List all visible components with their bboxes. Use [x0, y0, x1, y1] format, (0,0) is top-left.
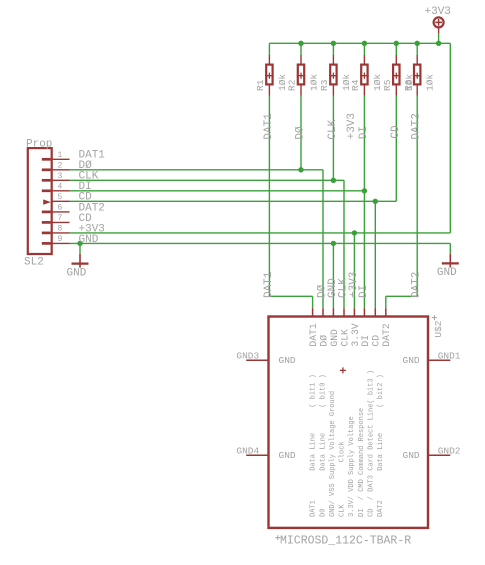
junction bus R2 — [298, 41, 303, 46]
svg-text:DI: DI — [360, 335, 371, 347]
svg-text:R6: R6 — [403, 79, 414, 91]
junction 3.3V pin — [352, 230, 357, 235]
junction bus R6 — [415, 41, 420, 46]
wire D0 row — [70, 169, 302, 171]
svg-text:CLK: CLK — [339, 329, 350, 347]
svg-text:DØ: DØ — [295, 126, 307, 140]
junction bus R4 — [362, 41, 367, 46]
junction DI R4 — [362, 188, 367, 193]
junction GND left — [77, 241, 82, 246]
wire D0 jog down to U$2 — [301, 170, 323, 308]
resistor R2 — [287, 55, 320, 96]
ground symbol left — [67, 254, 89, 280]
wire CD row — [70, 200, 397, 202]
svg-text:U$2: U$2 — [433, 320, 444, 337]
svg-text:1Øk: 1Øk — [309, 74, 320, 91]
microSD socket U$2 — [246, 308, 450, 528]
junction bus +3V3 — [436, 41, 441, 46]
svg-text:3.3V: 3.3V — [350, 323, 361, 346]
svg-text:CLK Clock: CLK Clock — [339, 441, 347, 517]
wire +3V3 row to pin 8 — [70, 232, 451, 234]
wire GND row from pin 9 — [70, 242, 451, 244]
svg-text:CD: CD — [371, 335, 382, 347]
resistor R3 — [319, 55, 352, 96]
svg-text:R2: R2 — [287, 79, 298, 91]
svg-text:SL2: SL2 — [24, 257, 44, 269]
svg-text:5: 5 — [57, 193, 62, 202]
wire +3V3 right rail — [449, 43, 451, 233]
wire DAT1 from R1 to U$2 — [269, 96, 312, 309]
svg-text:DAT2: DAT2 — [381, 323, 392, 346]
svg-text:DI: DI — [358, 285, 370, 298]
svg-text:DAT2: DAT2 — [411, 113, 423, 139]
svg-text:GND: GND — [279, 450, 296, 461]
wire +3V3 bus — [269, 42, 450, 44]
wire CLK from R3 — [332, 96, 334, 181]
svg-text:1Øk: 1Øk — [425, 74, 436, 91]
svg-text:DAT2: DAT2 — [411, 272, 423, 298]
origin cross U$2 — [432, 315, 437, 320]
svg-text:DØ: DØ — [318, 335, 329, 347]
connector SL2 — [24, 139, 70, 269]
wire CD drop to U$2 — [374, 201, 376, 308]
junction D0 R2 — [298, 167, 303, 172]
svg-text:R4: R4 — [350, 79, 361, 91]
svg-text:1: 1 — [57, 151, 62, 160]
svg-text:GND3: GND3 — [236, 351, 259, 362]
svg-text:GND: GND — [403, 355, 420, 366]
svg-text:2: 2 — [57, 161, 62, 170]
svg-text:DI: DI — [358, 126, 370, 139]
svg-text:MICROSD_112C-TBAR-R: MICROSD_112C-TBAR-R — [280, 534, 411, 547]
svg-text:+3V3: +3V3 — [425, 6, 451, 18]
ground symbol right — [437, 254, 459, 279]
resistor R5 — [382, 55, 415, 96]
svg-text:9: 9 — [57, 235, 62, 244]
wire CLK row — [70, 179, 334, 181]
svg-text:R3: R3 — [319, 79, 330, 91]
wire D0 from R2 — [300, 96, 302, 170]
+3V3 supply symbol — [434, 17, 444, 33]
svg-text:GND: GND — [79, 234, 99, 246]
svg-text:GND: GND — [403, 450, 420, 461]
svg-text:GND: GND — [67, 267, 87, 279]
resistor R6 — [403, 55, 436, 96]
svg-text:+3V3: +3V3 — [346, 113, 358, 139]
svg-text:GND1: GND1 — [438, 351, 461, 362]
svg-text:6: 6 — [57, 204, 62, 213]
svg-text:CLK: CLK — [327, 119, 339, 139]
svg-text:CD: CD — [390, 125, 402, 139]
wire DAT2 from R6 to U$2 — [386, 96, 417, 309]
svg-text:GND: GND — [329, 329, 340, 347]
wire DI row — [70, 190, 365, 192]
svg-text:GND2: GND2 — [438, 446, 461, 457]
svg-text:R5: R5 — [382, 79, 393, 91]
resistor R1 — [255, 55, 288, 96]
svg-text:DI / CMD Command Response: DI / CMD Command Response — [358, 408, 366, 517]
wire GND drop right — [449, 243, 451, 254]
svg-text:CD / DAT3 Card Detect Line( b: CD / DAT3 Card Detect Line( bit3 ) — [368, 370, 376, 517]
origin cross value — [275, 535, 280, 540]
wire DI from R4 to U$2 — [363, 96, 365, 309]
svg-text:GND4: GND4 — [236, 446, 259, 457]
junction bus R3 — [331, 41, 336, 46]
wire GND drop to U$2 — [332, 243, 334, 308]
resistor top stubs green — [269, 43, 417, 55]
wire 3.3V drop to U$2 — [353, 233, 355, 308]
wire +3V3 stub — [438, 33, 440, 43]
junction bus R5 — [394, 41, 399, 46]
svg-text:R1: R1 — [255, 79, 266, 91]
svg-text:4: 4 — [57, 182, 62, 191]
wire GND drop left — [79, 243, 81, 254]
resistor R4 — [350, 55, 383, 96]
svg-text:Prop: Prop — [26, 139, 52, 151]
svg-text:8: 8 — [57, 225, 62, 234]
svg-text:DAT1 Data Line ( bi: DAT1 Data Line ( bit1 ) — [310, 374, 318, 517]
wire CLK jog down to U$2 — [333, 180, 344, 308]
svg-text:3: 3 — [57, 172, 62, 181]
svg-text:GND: GND — [279, 355, 296, 366]
junction CLK R3 — [331, 178, 336, 183]
svg-text:7: 7 — [57, 214, 62, 223]
svg-text:GND/ VSS Supply Voltage Ground: GND/ VSS Supply Voltage Ground — [329, 391, 337, 517]
junction CD pin — [373, 199, 378, 204]
svg-text:DAT1: DAT1 — [263, 113, 275, 140]
wire CD from R5 — [395, 96, 397, 202]
svg-text:3.3V/ VDD Supply Voltage: 3.3V/ VDD Supply Voltage — [348, 416, 356, 517]
svg-text:DAT2 Data Line ( bi: DAT2 Data Line ( bit2 ) — [377, 374, 385, 517]
svg-text:DAT1: DAT1 — [308, 323, 319, 346]
svg-text:D0 Data Line ( bi: D0 Data Line ( bit0 ) — [319, 374, 327, 517]
svg-text:DAT1: DAT1 — [263, 271, 275, 298]
svg-text:GND: GND — [437, 267, 457, 279]
junction GND pin — [331, 241, 336, 246]
